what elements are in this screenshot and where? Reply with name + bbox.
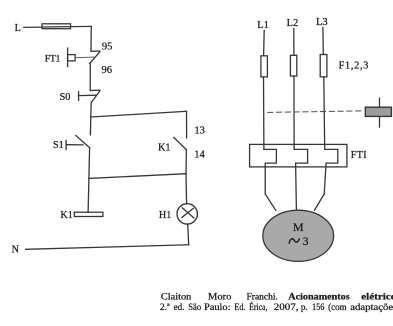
svg-text:L1: L1 (257, 20, 269, 31)
svg-text:p.: p. (301, 303, 308, 313)
label S1 (53, 140, 64, 151)
svg-text:S1: S1 (53, 140, 64, 151)
svg-text:2007,: 2007, (274, 303, 299, 313)
thermal contact FT1 95-96 (90, 51, 100, 63)
heater element 3 (324, 149, 338, 194)
svg-text:L3: L3 (316, 17, 328, 28)
pin 96 (102, 65, 113, 76)
fuse F3 (power) (320, 55, 327, 77)
pin 14 (194, 150, 205, 161)
overload relay FT1 box (250, 144, 347, 167)
FT1 actuator paddle (68, 48, 94, 67)
label FTI (351, 150, 367, 161)
wire F2 to overload (293, 76, 295, 149)
svg-text:3: 3 (303, 236, 309, 248)
svg-text:FT1: FT1 (45, 53, 61, 64)
node L3 (316, 17, 328, 28)
fuse F1 (power) (261, 56, 268, 77)
wire junction to K1 branch (91, 111, 187, 117)
svg-text:S0: S0 (60, 92, 71, 103)
motor M 3~ (263, 210, 334, 261)
svg-text:L2: L2 (287, 18, 299, 29)
wire L2 down (293, 29, 295, 56)
node L2 (287, 18, 299, 29)
svg-text:São: São (188, 303, 201, 313)
svg-text:14: 14 (194, 150, 205, 161)
label FT1 (45, 53, 61, 64)
svg-text:elétricos: elétricos (361, 293, 393, 303)
svg-text:M: M (293, 220, 304, 234)
wire FT1 to S0 (89, 63, 91, 90)
svg-text:H1: H1 (159, 210, 171, 221)
svg-text:96: 96 (102, 65, 113, 76)
svg-text:K1: K1 (158, 143, 170, 154)
wire junction to lamp (185, 174, 188, 204)
lamp H1 (177, 204, 197, 224)
svg-text:Moro: Moro (208, 293, 232, 303)
svg-text:156: 156 (312, 303, 325, 313)
heater element 1 (264, 149, 277, 194)
wire L1 down (263, 30, 266, 55)
wire lower junction (89, 174, 186, 179)
contactor K1 mechanical link (dashed) (268, 111, 362, 113)
node L (15, 23, 21, 34)
node N (12, 245, 20, 256)
svg-text:2.ª: 2.ª (160, 303, 170, 313)
svg-text:Érica,: Érica, (249, 301, 267, 313)
svg-text:adaptações: adaptações (350, 303, 393, 313)
pushbutton S1 (NO) (66, 136, 89, 150)
svg-text:Ed.: Ed. (234, 303, 245, 313)
wire junction down to S1 (89, 117, 91, 135)
wire F1 to overload (263, 77, 265, 149)
heater element 2 (294, 149, 308, 163)
label K1 (coil) (60, 210, 72, 221)
contactor K1 actuator (365, 98, 391, 127)
wire L to fuse (24, 26, 42, 28)
wire element1 to motor (265, 194, 276, 210)
wire junction to coil (87, 178, 90, 212)
svg-text:95: 95 (102, 42, 113, 53)
svg-text:K1: K1 (60, 210, 72, 221)
label H1 (159, 210, 171, 221)
wire N (26, 245, 189, 250)
fuse F1 (control circuit) (42, 24, 71, 29)
caption line 2 (160, 301, 393, 313)
wire S0 to junction (90, 102, 92, 117)
svg-text:13: 13 (194, 125, 205, 136)
pushbutton S0 (NC) (79, 90, 100, 102)
wire L3 down (322, 28, 324, 55)
svg-text:Acionamentos: Acionamentos (288, 293, 350, 303)
svg-text:F1,2,3: F1,2,3 (339, 60, 370, 71)
svg-text:Franchi.: Franchi. (247, 293, 278, 303)
svg-text:Claiton: Claiton (161, 293, 192, 303)
pin 95 (102, 42, 113, 53)
label K1 (158, 143, 170, 154)
wire F3 to overload (323, 77, 326, 149)
svg-text:(com: (com (328, 302, 347, 313)
node L1 (257, 20, 269, 31)
wire element3 to motor (314, 194, 324, 210)
wire corner down to FT1 contact (90, 26, 92, 51)
wire element2 to motor (295, 163, 298, 210)
coil K1 (74, 212, 103, 216)
svg-text:Paulo:: Paulo: (204, 303, 231, 313)
pin 13 (194, 125, 205, 136)
svg-text:FTI: FTI (351, 150, 367, 161)
wire through fuse and to corner (42, 25, 91, 28)
svg-text:L: L (15, 23, 21, 34)
svg-text:N: N (12, 245, 20, 256)
label F1,2,3 (339, 60, 370, 71)
wire lamp to N (188, 224, 189, 245)
caption line 1 (161, 293, 393, 303)
svg-text:ed.: ed. (174, 303, 185, 313)
wire S1 down (88, 148, 91, 179)
fuse F2 (power) (290, 55, 296, 76)
contact K1 13-14 (NO) (174, 111, 187, 173)
label S0 (60, 92, 71, 103)
